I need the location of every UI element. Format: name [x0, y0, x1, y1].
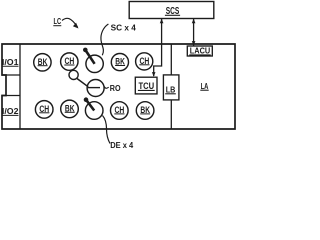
LACU box — [187, 46, 212, 56]
svg-text:TCU: TCU — [138, 81, 154, 91]
robot RO inner arm — [88, 87, 100, 89]
spin coater SC circle — [86, 55, 103, 72]
robot RO small circle — [69, 70, 78, 79]
svg-text:I/O1: I/O1 — [2, 58, 19, 67]
chill plate CH top row 5 — [136, 53, 153, 70]
I/O1 bottom wall — [2, 74, 20, 76]
I/O2 top wall — [2, 95, 20, 97]
SCS box — [129, 2, 214, 19]
DE label leader — [103, 116, 111, 144]
partition line x20 — [19, 44, 21, 129]
arrowhead down into LACU — [192, 41, 196, 46]
svg-text:I/O2: I/O2 — [2, 107, 19, 116]
developer DE circle — [85, 102, 103, 120]
bake plate BK top row 4 — [111, 54, 128, 71]
lithocell outline — [2, 44, 235, 129]
developer DE pin head — [84, 97, 89, 102]
arrowhead up into SCS from LACU wire — [192, 19, 196, 24]
wire SCS to LACU — [193, 19, 195, 46]
svg-text:LACU: LACU — [190, 46, 210, 56]
spin coater SC pin head — [83, 48, 88, 53]
chill plate CH bottom row 4 — [111, 102, 129, 120]
svg-text:LB: LB — [166, 85, 176, 95]
LB box — [163, 75, 179, 100]
bake plate BK top row 1 — [34, 54, 51, 71]
svg-text:RO: RO — [110, 83, 121, 93]
spin coater SC pin bar — [85, 50, 94, 64]
svg-text:DE x 4: DE x 4 — [110, 141, 134, 150]
SC label leader — [101, 24, 108, 55]
TCU box — [135, 77, 157, 94]
bake plate BK bottom row 2 — [61, 100, 79, 118]
LC label arrow — [62, 18, 78, 27]
svg-text:SC x 4: SC x 4 — [111, 24, 137, 33]
chill plate CH bottom row 1 — [35, 101, 53, 119]
arrowhead up into SCS from TCU wire — [160, 19, 164, 24]
LC arrowhead — [73, 23, 79, 29]
wire SCS to TCU — [154, 19, 162, 77]
robot RO big circle — [87, 80, 104, 97]
bake plate BK bottom row 5 — [136, 102, 154, 120]
RO label squiggle — [104, 86, 109, 88]
divider upper segment — [170, 44, 172, 75]
arrowhead down into TCU — [152, 72, 156, 77]
svg-text:LC: LC — [54, 17, 62, 26]
robot RO arm rod — [77, 79, 88, 87]
divider lower segment — [170, 100, 172, 129]
chill plate CH top row 2 — [61, 53, 78, 70]
developer DE pin bar — [86, 100, 94, 111]
